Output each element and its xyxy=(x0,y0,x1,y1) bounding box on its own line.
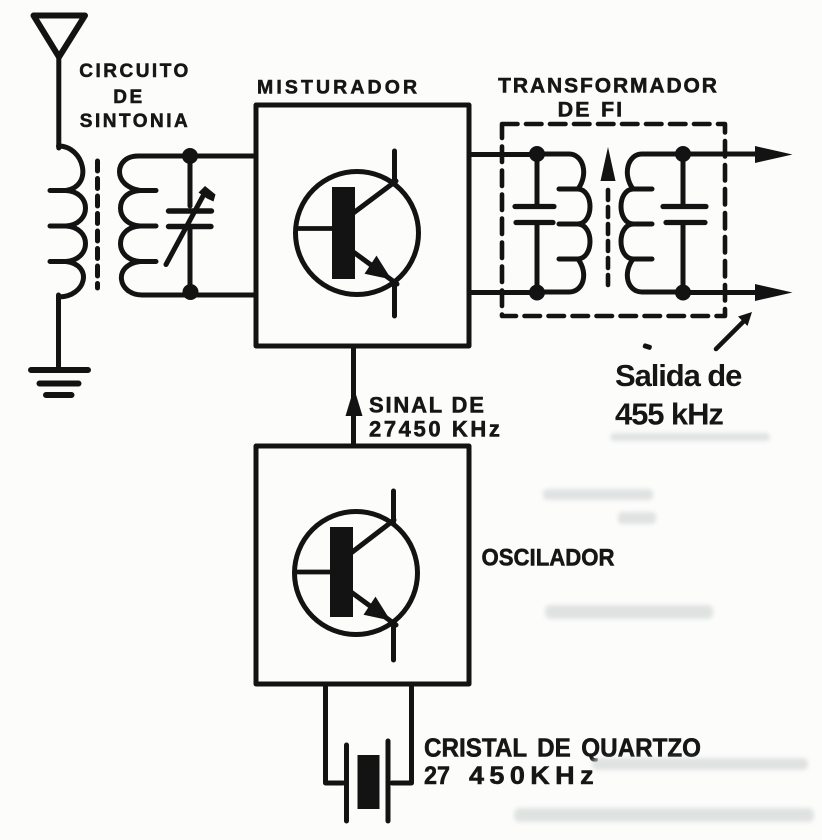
wire mixer to IF bottom xyxy=(469,290,537,295)
wire oscillator to crystal left xyxy=(326,684,344,783)
node D IF left bottom dot xyxy=(529,285,545,301)
svg-text:450KHz: 450KHz xyxy=(469,762,599,790)
svg-text:DE: DE xyxy=(113,87,144,108)
oscillator signal arrowhead xyxy=(346,388,363,416)
crystal XT1 right plate xyxy=(386,741,391,821)
transistor Q1 mixer xyxy=(296,151,419,316)
node C IF left top dot xyxy=(529,146,545,162)
wire coil to ground xyxy=(56,295,61,369)
svg-text:Salida de: Salida de xyxy=(615,358,742,393)
mixer block box xyxy=(256,105,469,346)
capacitor C2 plates xyxy=(515,207,554,223)
inductor L2 secondary tuning coil xyxy=(120,156,191,295)
ground xyxy=(31,370,88,395)
oscillator block box xyxy=(256,446,469,684)
svg-text:DE: DE xyxy=(558,98,592,122)
variable capacitor C1 arrowhead xyxy=(199,186,216,202)
arrow salida pointer shaft xyxy=(716,320,745,349)
arrow salida pointer head xyxy=(738,312,752,326)
crystal XT1 body xyxy=(358,755,380,809)
svg-text:27450 KHz: 27450 KHz xyxy=(369,417,502,442)
capacitor C3 plates xyxy=(663,207,706,223)
coupling arrow dashed shaft xyxy=(606,186,611,285)
transformer core dashed line xyxy=(95,161,100,288)
svg-text:SINTONIA: SINTONIA xyxy=(80,111,190,132)
node E IF right top dot xyxy=(675,146,691,162)
svg-text:455 kHz: 455 kHz xyxy=(615,397,723,432)
ghost marks (page bleed-through) xyxy=(514,433,814,822)
svg-text:SINAL DE: SINAL DE xyxy=(369,393,486,418)
output arrowhead bottom xyxy=(755,284,793,301)
wire top left to mixer xyxy=(190,154,256,159)
wire antenna lead xyxy=(56,54,61,148)
svg-text:CIRCUITO: CIRCUITO xyxy=(79,61,190,82)
wire oscillator to crystal right xyxy=(392,684,412,783)
output arrowhead top xyxy=(755,146,793,163)
node A top tuning junction dot xyxy=(182,148,198,164)
svg-text:TRANSFORMADOR: TRANSFORMADOR xyxy=(498,75,719,98)
inductor L1 antenna coil xyxy=(50,146,86,297)
variable capacitor C1 branch wires xyxy=(188,156,193,293)
coupling arrowhead xyxy=(601,147,616,181)
svg-text:FI: FI xyxy=(601,98,624,122)
antenna ANT1 xyxy=(34,16,86,58)
transformer FI dashed box xyxy=(502,124,725,316)
capacitor C2 branch wires xyxy=(535,154,540,293)
inductor L3 IF primary coil xyxy=(537,154,590,292)
speck mark xyxy=(642,343,652,351)
wire IF output bottom xyxy=(683,290,778,295)
wire mixer to oscillator xyxy=(351,346,356,446)
transistor Q2 oscillator xyxy=(295,491,418,660)
variable capacitor C1 arrow shaft xyxy=(166,196,203,265)
variable capacitor C1 plates xyxy=(169,211,212,227)
wire bottom left to mixer xyxy=(190,293,256,298)
node B bottom tuning junction dot xyxy=(183,284,199,300)
wire mixer to IF top xyxy=(469,152,537,157)
svg-text:27: 27 xyxy=(424,762,450,790)
node F IF right bottom dot xyxy=(675,285,691,301)
svg-text:MISTURADOR: MISTURADOR xyxy=(257,77,420,99)
svg-text:OSCILADOR: OSCILADOR xyxy=(482,545,615,572)
crystal XT1 left plate xyxy=(344,745,349,821)
capacitor C3 branch wires xyxy=(681,154,686,293)
wire IF output top xyxy=(683,152,778,157)
inductor L4 IF secondary coil xyxy=(621,154,683,292)
